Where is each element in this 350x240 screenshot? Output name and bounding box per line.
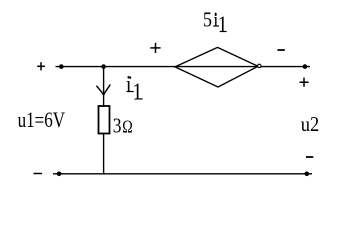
svg-text:Ω: Ω (122, 118, 132, 137)
svg-text:u1=6V: u1=6V (18, 108, 65, 133)
svg-text:i: i (126, 70, 132, 97)
svg-text:1: 1 (218, 11, 228, 37)
svg-text:3: 3 (113, 115, 122, 138)
svg-text:u2: u2 (301, 113, 319, 136)
svg-text:1: 1 (132, 78, 142, 105)
svg-text:5: 5 (203, 8, 212, 32)
